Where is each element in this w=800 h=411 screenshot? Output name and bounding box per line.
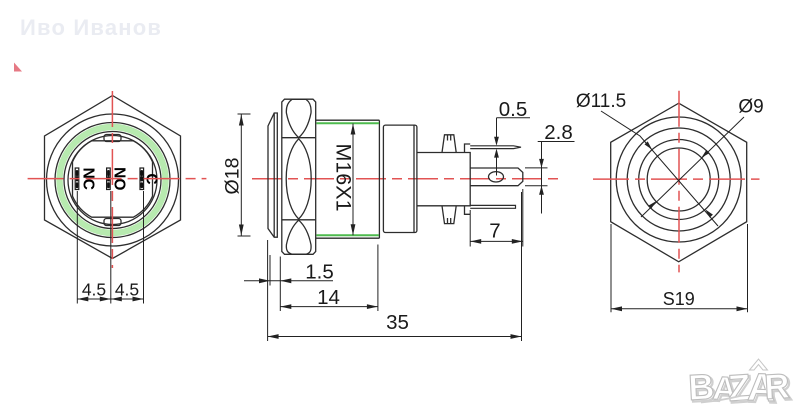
hex nut side view silhouette [282, 99, 316, 254]
nut bottom facet lens [286, 220, 311, 254]
dim S19 [611, 224, 748, 312]
outer circle [47, 114, 179, 246]
Ø11.5 leader [601, 111, 718, 226]
M16X1 dimension arrows [352, 124, 354, 236]
svg-text:Ø9: Ø9 [738, 97, 763, 118]
nut middle facet lens [286, 139, 311, 219]
svg-text:14: 14 [317, 286, 340, 309]
left view red centerlines [28, 91, 207, 268]
RIGHT VIEW [611, 103, 747, 262]
top key tab [104, 135, 121, 142]
dim 35 [268, 192, 522, 341]
bottom key tab [104, 219, 121, 226]
svg-text:R: R [763, 367, 790, 407]
rear circle 2 [627, 128, 730, 231]
red cursor triangle top-left [14, 63, 22, 72]
svg-text:Ø11.5: Ø11.5 [576, 91, 626, 112]
watermark Ivo Ivanov [20, 15, 162, 41]
dim 2.8 [525, 142, 575, 214]
hexagon S19 front [45, 96, 181, 259]
svg-text:35: 35 [386, 311, 409, 334]
svg-text:7: 7 [489, 220, 500, 243]
4.5 4.5 dimension under left view [77, 191, 143, 304]
terminal tick marks [77, 171, 142, 187]
red centerlines right view [593, 91, 760, 273]
top pin needle [470, 146, 521, 149]
button head flange [268, 99, 379, 254]
nut ridge lines [282, 138, 316, 220]
top latch tab [442, 135, 456, 153]
svg-text:Ø18: Ø18 [222, 158, 244, 195]
svg-text:4.5: 4.5 [82, 280, 106, 300]
dim 14 [280, 245, 378, 312]
terminal hole [489, 172, 504, 182]
hexagon rear [611, 103, 747, 262]
dim 1.5 [244, 255, 333, 311]
svg-text:M16X1: M16X1 [331, 143, 355, 211]
svg-text:2.8: 2.8 [544, 121, 573, 144]
top-right nub [465, 144, 471, 153]
dim 0.5 [497, 118, 531, 176]
threaded barrel [316, 120, 380, 238]
BAZAR watermark [687, 359, 790, 410]
green illuminated ring [60, 127, 166, 233]
rear housing block [383, 125, 470, 232]
circle Ø9 [647, 148, 710, 211]
bottom latch tab [442, 206, 456, 224]
BAZAR watermark shadow [689, 367, 792, 411]
switch body [417, 153, 470, 206]
bezel circle [55, 123, 170, 238]
thread green lines [317, 123, 380, 235]
svg-text:0.5: 0.5 [499, 98, 528, 121]
ring inner circle [64, 132, 161, 229]
svg-text:4.5: 4.5 [115, 280, 139, 300]
svg-text:S19: S19 [663, 289, 695, 309]
actuator circle [68, 136, 157, 225]
swoosh underline [701, 396, 740, 403]
red centerline [252, 178, 563, 180]
middle flat terminal [470, 168, 523, 186]
dim Ø18 [238, 114, 251, 236]
actuator square [73, 141, 153, 217]
svg-text:1.5: 1.5 [305, 261, 334, 284]
rear circle outer [616, 117, 741, 242]
bottom pin [470, 205, 515, 208]
dim 7 [470, 189, 523, 247]
bottom-right nub [465, 206, 471, 215]
circle Ø11.5 [639, 140, 719, 220]
terminals NC NO C [75, 168, 143, 190]
nut top facet lens [286, 99, 311, 137]
circumflex of second A [750, 359, 768, 370]
Ø9 leader [641, 117, 744, 217]
